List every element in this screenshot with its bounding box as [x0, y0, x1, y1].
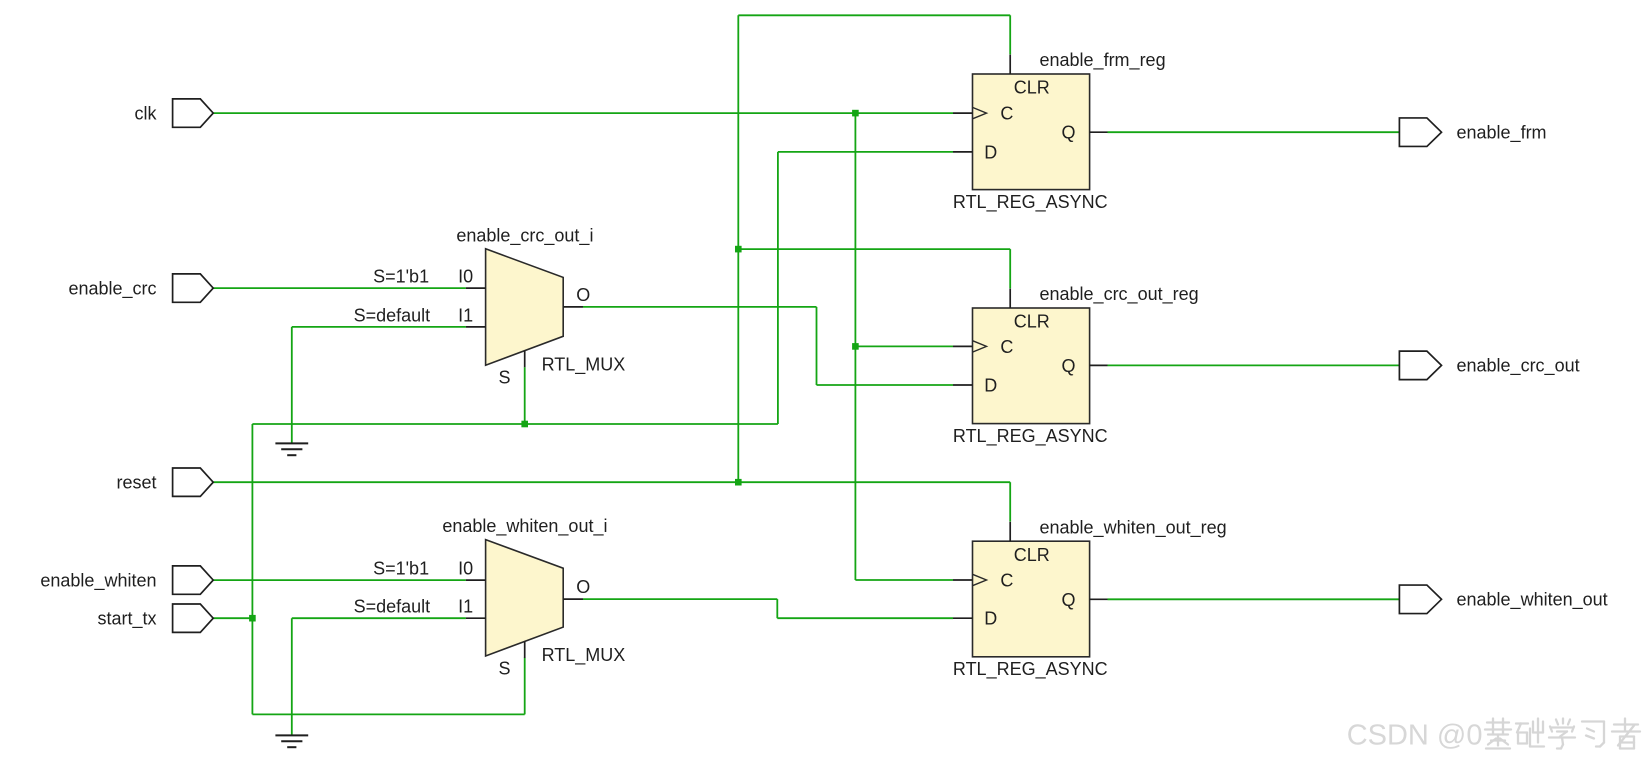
svg-text:CLR: CLR: [1014, 545, 1050, 565]
svg-text:O: O: [576, 577, 590, 597]
svg-text:enable_whiten: enable_whiten: [40, 570, 156, 591]
svg-text:enable_frm: enable_frm: [1457, 123, 1547, 144]
svg-text:CLR: CLR: [1014, 312, 1050, 332]
svg-text:D: D: [984, 609, 997, 629]
svg-text:D: D: [984, 375, 997, 395]
svg-text:S=default: S=default: [354, 305, 431, 325]
svg-text:CLR: CLR: [1014, 78, 1050, 98]
svg-text:enable_frm_reg: enable_frm_reg: [1040, 50, 1166, 71]
svg-text:RTL_REG_ASYNC: RTL_REG_ASYNC: [953, 426, 1108, 447]
svg-text:S=default: S=default: [354, 597, 431, 617]
svg-text:enable_whiten_out: enable_whiten_out: [1457, 590, 1608, 611]
svg-text:enable_whiten_out_i: enable_whiten_out_i: [442, 516, 607, 537]
svg-text:CSDN @0: CSDN @0: [1347, 720, 1483, 752]
svg-text:enable_whiten_out_reg: enable_whiten_out_reg: [1040, 517, 1227, 538]
svg-text:S: S: [498, 368, 510, 388]
svg-text:S: S: [498, 658, 510, 678]
svg-text:RTL_MUX: RTL_MUX: [542, 645, 626, 666]
svg-text:enable_crc_out: enable_crc_out: [1457, 356, 1580, 377]
svg-text:S=1'b1: S=1'b1: [373, 266, 429, 286]
svg-text:Q: Q: [1062, 356, 1076, 376]
svg-text:clk: clk: [135, 103, 158, 123]
svg-text:I1: I1: [458, 305, 473, 325]
svg-text:RTL_REG_ASYNC: RTL_REG_ASYNC: [953, 659, 1108, 680]
svg-text:I0: I0: [458, 558, 473, 578]
svg-text:D: D: [984, 142, 997, 162]
svg-text:start_tx: start_tx: [97, 609, 156, 630]
svg-text:Q: Q: [1062, 590, 1076, 610]
svg-text:reset: reset: [116, 473, 156, 493]
svg-text:RTL_MUX: RTL_MUX: [542, 354, 626, 375]
svg-text:enable_crc_out_reg: enable_crc_out_reg: [1040, 284, 1199, 305]
svg-text:enable_crc: enable_crc: [68, 278, 156, 299]
svg-text:I0: I0: [458, 266, 473, 286]
svg-text:S=1'b1: S=1'b1: [373, 558, 429, 578]
svg-text:RTL_REG_ASYNC: RTL_REG_ASYNC: [953, 192, 1108, 213]
svg-text:O: O: [576, 285, 590, 305]
svg-text:I1: I1: [458, 597, 473, 617]
svg-text:C: C: [1000, 337, 1013, 357]
svg-text:C: C: [1000, 570, 1013, 590]
svg-text:Q: Q: [1062, 123, 1076, 143]
svg-text:enable_crc_out_i: enable_crc_out_i: [456, 225, 593, 246]
svg-text:C: C: [1000, 104, 1013, 124]
